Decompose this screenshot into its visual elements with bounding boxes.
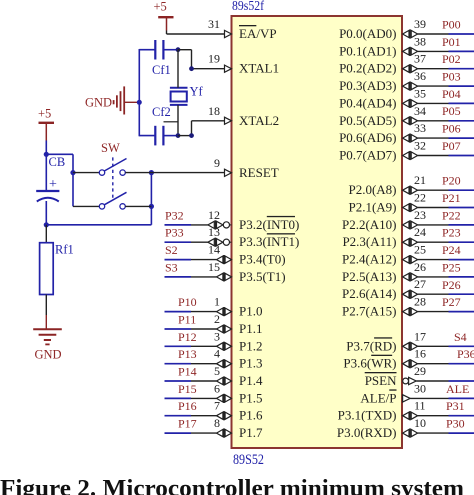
wire net P27 (right) (442, 295, 474, 312)
svg-text:P1.2: P1.2 (239, 338, 262, 353)
svg-text:89s52f: 89s52f (232, 0, 264, 14)
svg-text:P2.7(A15): P2.7(A15) (342, 304, 397, 319)
svg-text:S4: S4 (454, 330, 467, 344)
svg-text:P20: P20 (442, 174, 461, 188)
wire node B to pin 9 (151, 172, 224, 174)
svg-text:RESET: RESET (239, 165, 279, 180)
wire net P22 (right) (442, 208, 474, 225)
wire net P26 (right) (442, 278, 474, 294)
wire capacitor ground rail (138, 49, 140, 136)
svg-text:P0.7(AD7): P0.7(AD7) (339, 148, 396, 163)
svg-text:P07: P07 (442, 139, 461, 153)
svg-text:P14: P14 (178, 365, 197, 379)
svg-text:35: 35 (414, 86, 426, 100)
wire net P36 (right) (449, 347, 474, 364)
pin 22 P2.1(A9) (right) (348, 191, 448, 215)
svg-text:P1.4: P1.4 (239, 373, 263, 388)
pin 39 P0.0(AD0) (right) (339, 17, 448, 41)
junction rail / switch branch (44, 152, 49, 157)
svg-text:GND: GND (85, 96, 112, 110)
svg-text:Cf1: Cf1 (152, 63, 171, 77)
pin 13 P3.3(INT1) (left) (191, 225, 299, 249)
svg-text:P2.2(A10): P2.2(A10) (342, 217, 397, 232)
svg-text:P2.0(A8): P2.0(A8) (348, 182, 396, 197)
svg-text:11: 11 (414, 399, 426, 413)
svg-text:23: 23 (414, 208, 426, 222)
junction at pin 19 wire (189, 66, 194, 71)
svg-text:P3.6(WR): P3.6(WR) (343, 356, 396, 371)
IC U1 89S52 body (232, 16, 403, 448)
pin 2 P1.1 (left) (191, 312, 262, 336)
svg-text:19: 19 (208, 52, 220, 66)
ground (crystal section) (85, 86, 124, 114)
wire net P07 (right) (442, 139, 474, 156)
wire reset return horizontal (46, 224, 151, 226)
wire net ALE (right) (446, 382, 474, 399)
svg-text:31: 31 (208, 17, 220, 31)
svg-text:+5: +5 (38, 107, 51, 121)
svg-text:ALE: ALE (446, 382, 469, 396)
svg-text:P27: P27 (442, 295, 461, 309)
svg-text:P30: P30 (446, 417, 465, 431)
wire net P15 (left) (165, 382, 197, 399)
svg-text:P0.1(AD1): P0.1(AD1) (339, 43, 396, 58)
pin 9 RESET (left) (214, 156, 279, 180)
wire net P02 (right) (442, 52, 474, 68)
wire node A vertical (72, 154, 74, 206)
svg-text:PSEN: PSEN (365, 373, 397, 388)
svg-text:Rf1: Rf1 (55, 243, 74, 257)
pin 36 P0.3(AD3) (right) (339, 69, 448, 93)
svg-text:P2.6(A14): P2.6(A14) (342, 286, 397, 301)
crystal Yf (170, 85, 204, 105)
wire net P33 (left) (165, 226, 192, 243)
svg-text:36: 36 (414, 69, 426, 83)
wire node to pin 18 (178, 121, 225, 136)
svg-text:P3.1(TXD): P3.1(TXD) (338, 408, 397, 423)
svg-text:28: 28 (414, 295, 426, 309)
wire net P10 (left) (165, 295, 197, 312)
svg-text:24: 24 (414, 225, 426, 239)
wire net S2 (left) (165, 243, 192, 260)
pin 23 P2.2(A10) (right) (342, 208, 449, 232)
svg-text:Yf: Yf (190, 85, 204, 99)
junction node B top (149, 170, 154, 175)
pin 21 P2.0(A8) (right) (348, 173, 448, 197)
pin 3 P1.2 (left) (191, 329, 262, 353)
svg-text:P1.7: P1.7 (239, 425, 263, 440)
svg-text:P3.5(T1): P3.5(T1) (239, 269, 286, 284)
svg-text:P3.0(RXD): P3.0(RXD) (337, 425, 397, 440)
wire +5 to pin 31 (167, 31, 225, 35)
wire net P23 (right) (442, 226, 474, 243)
pin 30 ALE/P (right) (360, 381, 448, 405)
svg-text:P10: P10 (178, 295, 197, 309)
wire net P11 (left) (165, 313, 197, 330)
svg-text:P16: P16 (178, 399, 197, 413)
svg-text:P1.5: P1.5 (239, 390, 262, 405)
svg-text:P3.7(RD): P3.7(RD) (346, 338, 396, 353)
svg-text:P26: P26 (442, 278, 461, 292)
svg-text:P25: P25 (442, 260, 461, 274)
svg-text:P21: P21 (442, 191, 461, 205)
svg-text:P23: P23 (442, 226, 461, 240)
svg-text:P2.3(A11): P2.3(A11) (342, 234, 396, 249)
pin 38 P0.1(AD1) (right) (339, 34, 448, 58)
pin 32 P0.7(AD7) (right) (339, 139, 448, 163)
wire net P16 (left) (165, 399, 197, 416)
svg-text:+: + (49, 177, 57, 192)
svg-text:3: 3 (214, 329, 220, 343)
junction node A (70, 170, 75, 175)
svg-text:P31: P31 (446, 399, 465, 413)
wire rail to Cf1 (139, 49, 155, 51)
svg-text:16: 16 (414, 347, 426, 361)
wire +5 rail down to CB (45, 141, 47, 191)
wire net P20 (right) (442, 174, 474, 191)
wire net P24 (right) (442, 243, 474, 260)
svg-text:P3.4(T0): P3.4(T0) (239, 252, 286, 267)
node XTAL2 junction (176, 133, 181, 138)
pin 25 P2.4(A12) (right) (342, 243, 449, 267)
resistor Rf1 (40, 243, 74, 295)
svg-text:P3.3(INT1): P3.3(INT1) (239, 234, 299, 249)
svg-text:29: 29 (414, 364, 426, 378)
wire stub at XTAL2 level (164, 121, 179, 123)
svg-text:P0.2(AD2): P0.2(AD2) (339, 61, 396, 76)
wire net P17 (left) (165, 417, 197, 434)
pin 7 P1.6 (left) (191, 399, 263, 423)
svg-text:17: 17 (414, 329, 426, 343)
svg-text:P11: P11 (178, 313, 196, 327)
svg-text:10: 10 (414, 416, 426, 430)
pin 33 P0.6(AD6) (right) (339, 121, 448, 145)
pin 29 PSEN (right) (365, 364, 449, 388)
pin 10 P3.0(RXD) (right) (337, 416, 449, 440)
wire junction to resistor Rf1 (45, 225, 47, 243)
ground (reset section) (33, 329, 62, 361)
svg-text:5: 5 (214, 364, 220, 378)
svg-text:9: 9 (214, 156, 220, 170)
wire CB bottom to junction (45, 201, 47, 225)
svg-text:P04: P04 (442, 87, 461, 101)
svg-text:4: 4 (214, 347, 220, 361)
capacitor Cf1 (152, 40, 171, 77)
svg-text:18: 18 (208, 104, 220, 118)
svg-text:P00: P00 (442, 18, 461, 32)
svg-text:P1.6: P1.6 (239, 408, 263, 423)
svg-text:26: 26 (414, 260, 426, 274)
pin 35 P0.4(AD4) (right) (339, 86, 448, 110)
svg-text:P1.0: P1.0 (239, 304, 262, 319)
wire net P32 (left) (165, 208, 192, 225)
pin 24 P2.3(A11) (right) (342, 225, 448, 249)
svg-text:89S52: 89S52 (233, 452, 264, 468)
pin 11 P3.1(TXD) (right) (338, 399, 449, 423)
svg-text:XTAL1: XTAL1 (239, 61, 279, 76)
svg-text:22: 22 (414, 191, 426, 205)
svg-text:P2.4(A12): P2.4(A12) (342, 252, 397, 267)
svg-text:P03: P03 (442, 70, 461, 84)
pin 37 P0.2(AD2) (right) (339, 52, 448, 76)
pin 26 P2.5(A13) (right) (342, 260, 449, 284)
junction rail / reset return (44, 222, 49, 227)
svg-text:32: 32 (414, 139, 426, 153)
svg-text:15: 15 (208, 260, 220, 274)
wire net P03 (right) (442, 70, 474, 87)
svg-text:P0.4(AD4): P0.4(AD4) (339, 95, 396, 110)
switch SW lower pole (73, 192, 151, 209)
wire net P21 (right) (442, 191, 474, 208)
svg-text:ALE/P: ALE/P (360, 390, 396, 405)
wire net P12 (left) (165, 330, 197, 347)
node XTAL1 junction (176, 47, 181, 52)
svg-text:P2.1(A9): P2.1(A9) (348, 200, 396, 215)
pin 6 P1.5 (left) (191, 381, 262, 405)
wire net P04 (right) (442, 87, 474, 104)
svg-text:P36: P36 (457, 347, 474, 361)
svg-text:39: 39 (414, 17, 426, 31)
svg-text:27: 27 (414, 277, 426, 291)
wire net P01 (right) (442, 35, 474, 52)
wire rail to node A (46, 153, 73, 155)
svg-text:+5: +5 (154, 0, 167, 14)
svg-text:P0.3(AD3): P0.3(AD3) (339, 78, 396, 93)
svg-text:Figure 2. Microcontroller min: Figure 2. Microcontroller minimum system (0, 476, 464, 495)
wire crystal top lead (177, 50, 179, 88)
svg-text:P06: P06 (442, 122, 461, 136)
svg-text:30: 30 (414, 381, 426, 395)
wire net P31 (right) (446, 399, 474, 416)
pin 28 P2.7(A15) (right) (342, 295, 449, 319)
svg-text:25: 25 (414, 243, 426, 257)
svg-text:P3.2(INT0): P3.2(INT0) (239, 217, 299, 232)
switch SW upper pole (73, 159, 151, 176)
capacitor Cf2 (152, 105, 171, 145)
svg-text:37: 37 (414, 52, 426, 66)
svg-text:34: 34 (414, 104, 426, 118)
svg-text:P05: P05 (442, 104, 461, 118)
svg-text:P0.6(AD6): P0.6(AD6) (339, 130, 396, 145)
svg-text:S3: S3 (165, 260, 178, 274)
wire crystal bottom lead (177, 105, 179, 136)
svg-text:33: 33 (414, 121, 426, 135)
svg-text:CB: CB (49, 155, 66, 169)
wire net P13 (left) (165, 347, 197, 364)
pin 12 P3.2(INT0) (left) (191, 208, 299, 232)
wire net P30 (right) (446, 417, 474, 434)
junction node B at lower switch (149, 204, 154, 209)
svg-text:13: 13 (208, 225, 220, 239)
power +5 (reset section) (38, 107, 54, 141)
wire rail to Cf2 (139, 135, 155, 137)
svg-text:P02: P02 (442, 52, 461, 66)
svg-text:P22: P22 (442, 208, 461, 222)
power +5 (crystal section) (154, 0, 174, 31)
svg-text:XTAL2: XTAL2 (239, 113, 279, 128)
svg-text:P0.5(AD5): P0.5(AD5) (339, 113, 396, 128)
svg-text:P13: P13 (178, 347, 197, 361)
wire ground to capacitor rail (124, 101, 139, 103)
wire net P05 (right) (442, 104, 474, 121)
wire net P14 (left) (165, 365, 197, 382)
pin 14 P3.4(T0) (left) (191, 243, 286, 267)
svg-text:P12: P12 (178, 330, 197, 344)
svg-text:14: 14 (208, 243, 220, 257)
pin 34 P0.5(AD5) (right) (339, 104, 448, 128)
svg-text:P15: P15 (178, 382, 197, 396)
svg-text:2: 2 (214, 312, 220, 326)
pin 31 EA/VP (left) (208, 17, 277, 41)
svg-text:6: 6 (214, 381, 220, 395)
svg-text:7: 7 (214, 399, 220, 413)
pin 5 P1.4 (left) (191, 364, 263, 388)
svg-text:P32: P32 (165, 208, 184, 222)
switch SW gang link (dashed) (112, 157, 114, 198)
svg-text:1: 1 (214, 295, 220, 309)
svg-text:38: 38 (414, 34, 426, 48)
svg-text:S2: S2 (165, 243, 178, 257)
pin 17 P3.7(RD) (right) (346, 329, 448, 353)
svg-text:21: 21 (414, 173, 426, 187)
pin 18 XTAL2 (left) (208, 104, 279, 128)
svg-text:SW: SW (101, 141, 120, 155)
pin 8 P1.7 (left) (191, 416, 263, 440)
pin 1 P1.0 (left) (191, 295, 262, 319)
svg-text:8: 8 (214, 416, 220, 430)
pin 4 P1.3 (left) (191, 347, 262, 371)
pin 16 P3.6(WR) (right) (343, 347, 448, 371)
wire resistor to ground (45, 295, 47, 330)
wire Cf1 to crystal node (163, 49, 178, 51)
svg-text:P24: P24 (442, 243, 461, 257)
wire net PSEN (right) (449, 380, 474, 382)
svg-text:P1.1: P1.1 (239, 321, 262, 336)
svg-text:P1.3: P1.3 (239, 356, 262, 371)
pin 19 XTAL1 (left) (208, 52, 279, 76)
wire node B vertical (150, 173, 152, 225)
svg-text:P17: P17 (178, 417, 197, 431)
svg-text:P0.0(AD0): P0.0(AD0) (339, 26, 396, 41)
junction on capacitor rail (137, 100, 142, 105)
wire net P25 (right) (442, 260, 474, 277)
junction at pin 18 corner (189, 133, 194, 138)
capacitor CB (36, 155, 65, 202)
svg-text:P01: P01 (442, 35, 461, 49)
pin 27 P2.6(A14) (right) (342, 277, 449, 301)
wire net P06 (right) (442, 122, 474, 139)
svg-text:P2.5(A13): P2.5(A13) (342, 269, 397, 284)
svg-text:GND: GND (35, 348, 62, 362)
svg-text:P33: P33 (165, 226, 184, 240)
wire net P00 (right) (442, 18, 474, 35)
pin 15 P3.5(T1) (left) (191, 260, 286, 284)
svg-text:EA/VP: EA/VP (239, 26, 277, 41)
svg-text:12: 12 (208, 208, 220, 222)
svg-text:Cf2: Cf2 (152, 105, 171, 119)
wire net S4 (right) (449, 330, 474, 347)
wire Cf2 to crystal node (163, 135, 178, 137)
wire node to pin 19 (178, 50, 225, 69)
wire net S3 (left) (165, 260, 192, 277)
